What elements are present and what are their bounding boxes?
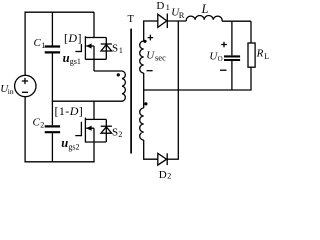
svg-text:[1-D]: [1-D] xyxy=(55,104,84,118)
label UR xyxy=(171,7,185,20)
label C2 xyxy=(33,117,45,130)
svg-text:C: C xyxy=(34,37,42,49)
label S1 xyxy=(112,43,123,55)
svg-text:C: C xyxy=(33,117,41,129)
svg-text:S: S xyxy=(112,127,118,139)
svg-text:U: U xyxy=(146,50,155,62)
inductor L xyxy=(186,16,222,22)
label + output xyxy=(221,42,227,48)
svg-text:T: T xyxy=(128,14,135,25)
wire RL upper lead xyxy=(250,21,252,43)
wire RL lower lead xyxy=(250,67,252,90)
diode D1 xyxy=(158,14,187,29)
label S2 xyxy=(112,127,122,139)
svg-text:R: R xyxy=(179,10,185,20)
label ugs2 xyxy=(61,136,79,151)
capacitor Co xyxy=(224,56,240,60)
label T xyxy=(128,14,135,25)
svg-text:gs1: gs1 xyxy=(70,57,81,66)
svg-text:1: 1 xyxy=(119,46,123,55)
svg-text:u: u xyxy=(61,136,68,150)
wire output cap lower lead xyxy=(231,61,233,90)
svg-text:2: 2 xyxy=(40,121,44,130)
wire output top xyxy=(222,20,251,22)
svg-text:[D]: [D] xyxy=(64,31,82,45)
transformer primary winding xyxy=(122,71,125,101)
body diode of S2 xyxy=(94,119,112,142)
label D2 xyxy=(159,169,172,181)
svg-text:2: 2 xyxy=(167,172,171,179)
resistor RL xyxy=(248,43,255,67)
svg-text:D: D xyxy=(159,169,167,179)
label ugs1 xyxy=(63,51,81,66)
label L xyxy=(201,2,209,16)
polarity dot primary xyxy=(117,73,120,76)
wire C branch lower xyxy=(51,133,53,162)
transformer secondary lower winding xyxy=(140,108,144,140)
wire left rail upper xyxy=(24,12,26,76)
label D1 xyxy=(156,0,169,12)
svg-text:S: S xyxy=(112,43,118,55)
transistor S2 xyxy=(75,101,106,142)
source Uin xyxy=(15,75,36,96)
wire left rail lower xyxy=(24,97,26,163)
wire midpoint xyxy=(52,100,123,102)
wire secondary middle xyxy=(143,73,145,108)
label minus output xyxy=(220,69,227,71)
transistor S1 xyxy=(75,12,106,60)
polarity dot secondary upper xyxy=(143,40,146,43)
wire cathode bus xyxy=(177,21,179,159)
wire S1 source to primary xyxy=(94,59,122,71)
polarity dot secondary lower xyxy=(144,102,147,105)
wire bottom rail left xyxy=(25,161,95,163)
svg-text:sec: sec xyxy=(155,53,166,63)
capacitor C2 xyxy=(45,126,60,132)
wire secondary top lead xyxy=(143,21,145,41)
label [1-D] xyxy=(55,104,84,118)
wire C branch upper xyxy=(51,12,53,45)
label Uo xyxy=(209,51,222,63)
arrow of S1 xyxy=(86,43,92,48)
svg-text:2: 2 xyxy=(118,130,122,139)
label minus secondary xyxy=(147,70,153,72)
label RL xyxy=(256,47,270,61)
body diode of S1 xyxy=(94,38,112,60)
svg-text:1: 1 xyxy=(41,41,45,50)
wire output cap upper lead xyxy=(231,21,233,55)
label [D] xyxy=(64,31,82,45)
svg-text:u: u xyxy=(63,51,70,65)
svg-text:1: 1 xyxy=(166,2,170,12)
svg-text:gs2: gs2 xyxy=(68,142,79,151)
label + secondary xyxy=(148,35,154,41)
svg-text:L: L xyxy=(264,52,269,61)
arrow of S2 xyxy=(86,126,92,131)
wire D1 anode xyxy=(143,20,158,22)
wire secondary bottom lead xyxy=(143,140,158,160)
svg-text:O: O xyxy=(218,56,223,63)
svg-text:D: D xyxy=(156,0,164,12)
label Usec xyxy=(146,50,166,63)
wire C branch middle xyxy=(51,53,53,125)
svg-text:in: in xyxy=(8,87,14,96)
svg-text:R: R xyxy=(256,47,264,59)
wire output bottom rail xyxy=(143,89,252,91)
wire top rail left xyxy=(25,11,95,13)
transformer core xyxy=(130,29,132,154)
wire S2 source to bottom rail xyxy=(93,142,95,162)
label Uin xyxy=(0,83,14,96)
label C1 xyxy=(34,37,46,50)
svg-text:L: L xyxy=(201,2,209,16)
transformer secondary upper winding xyxy=(140,41,144,73)
diode D2 xyxy=(158,153,179,165)
capacitor C1 xyxy=(45,47,60,53)
